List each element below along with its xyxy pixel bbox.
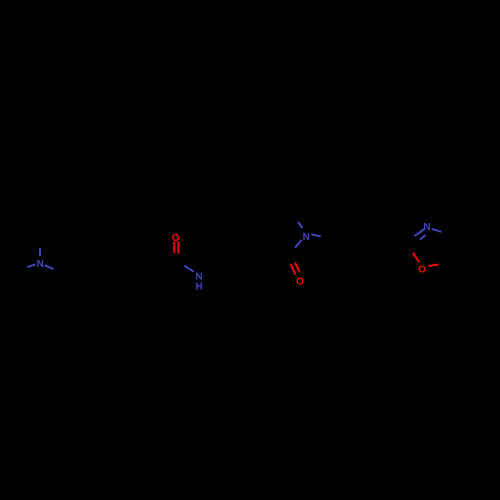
bond C2oxa=N3oxa inner parallel line nitrogen half <box>420 235 426 240</box>
wire: alkyl chain C-C bonds <box>63 262 176 275</box>
bond C1=O1 carbon-side halves of double bond <box>174 253 178 259</box>
bond N1-CH3b nitrogen half <box>27 264 35 267</box>
bond C2oxa exocyclic carbon half <box>402 236 415 247</box>
ring: benzene ring 1 (invisible) <box>222 250 267 301</box>
bond N1-CH3b outer half (carbon side) <box>16 267 27 272</box>
bond C1-N3 carbon half <box>176 262 185 266</box>
atom N1 dimethylamino nitrogen, colored half-bonds <box>27 249 53 270</box>
svg-text:N: N <box>423 222 430 233</box>
bond N2-CH3 nitrogen half <box>298 222 303 228</box>
bond C1=O1 oxygen-side halves of amide double bond (red) <box>174 241 178 254</box>
svg-text:O: O <box>172 233 180 244</box>
bond N2-C2' nitrogen half <box>295 240 302 248</box>
bond O1oxa-C7a carbon half <box>439 261 456 265</box>
atom N3oxa benzoxazole nitrogen, colored half-bonds <box>415 229 442 240</box>
bond N3oxa-C3a nitrogen half <box>432 229 442 232</box>
svg-text:N: N <box>303 232 310 243</box>
bond C2oxa=N3oxa main line nitrogen half <box>415 229 425 236</box>
bond O1oxa-C7a oxygen half <box>429 265 439 267</box>
bond N1-Calpha outer half (carbon side) <box>54 269 63 274</box>
bond N1-CH3a upper half (carbon side) <box>39 236 41 249</box>
bond C2'-N2 carbon half <box>288 248 295 255</box>
bond ring1-C2' carbon bond <box>267 255 288 263</box>
svg-text:O: O <box>296 277 304 288</box>
bond N3oxa-C3a carbon half <box>441 232 455 239</box>
bond C1-N3 nitrogen half (blue) <box>185 266 194 272</box>
wire: carbon skeleton (black, invisible on black background) <box>16 213 497 301</box>
svg-text:H: H <box>195 282 202 293</box>
svg-text:O: O <box>418 264 426 275</box>
bond N2-CH2 nitrogen half <box>311 234 320 236</box>
bond N1-Calpha nitrogen half <box>45 265 54 269</box>
ring: fused benzo ring (invisible) <box>455 231 497 275</box>
atom O1oxa benzoxazole oxygen, colored half-bonds <box>413 253 439 266</box>
svg-text:N: N <box>37 259 44 270</box>
bond C2'=O2 oxygen-side halves of double bond (red) <box>291 262 300 274</box>
bond N1-CH3a nitrogen half (vertical) <box>39 249 41 257</box>
ring: benzene ring 2 (invisible) <box>336 238 402 253</box>
atom N2 tertiary amide nitrogen, colored half-bonds <box>295 222 321 248</box>
bond C2'=O2 carbon-side halves <box>288 255 295 265</box>
bond N2-CH3 outer half <box>293 213 298 222</box>
bond O1oxa-C2oxa oxygen half <box>413 253 419 262</box>
bond N2-CH2 outer half <box>321 237 336 238</box>
bond C2oxa-O1oxa carbon half <box>402 247 413 254</box>
